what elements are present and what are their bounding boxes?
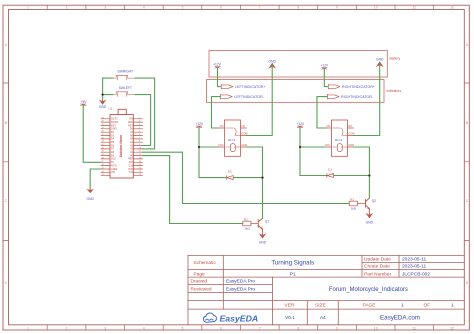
junction relay2 VCC: [299, 146, 301, 148]
svg-text:R2: R2: [244, 218, 248, 222]
svg-text:VCC: VCC: [218, 143, 224, 147]
svg-text:Part Number: Part Number: [364, 271, 392, 277]
svg-text:Q1: Q1: [265, 219, 269, 223]
svg-text:SWLEFT: SWLEFT: [119, 86, 132, 90]
resistor R1: [349, 201, 357, 206]
wire SWLEFT to arduino: [135, 95, 151, 146]
arduino pins right: [133, 119, 142, 176]
junction D1: [368, 174, 370, 176]
svg-text:3: 3: [104, 326, 106, 330]
svg-text:D2: D2: [228, 170, 232, 174]
svg-text:7: 7: [259, 6, 261, 10]
title block labels red: [191, 257, 431, 309]
svg-text:9: 9: [336, 326, 338, 330]
wire LEFTINDICATORR to relay1 NO: [212, 97, 221, 128]
diode D2: [227, 176, 234, 180]
svg-text:15: 15: [139, 164, 141, 166]
title block grid: [188, 256, 464, 325]
ground switches: [99, 100, 107, 110]
svg-text:11: 11: [139, 151, 141, 153]
svg-text:Page: Page: [194, 271, 206, 277]
wire +5V to arduino: [83, 106, 101, 163]
svg-text:11: 11: [413, 6, 417, 10]
svg-text:2: 2: [139, 121, 140, 123]
svg-text:SIZE: SIZE: [315, 302, 326, 308]
svg-text:RIGHTINDICATOR+: RIGHTINDICATOR+: [342, 85, 375, 89]
svg-text:SWRIGHT: SWRIGHT: [118, 70, 134, 74]
power +12V relay2: [296, 122, 305, 128]
wire +12V1 to P1: [218, 68, 221, 86]
svg-text:13: 13: [102, 174, 104, 176]
svg-text:EasyEDA Pro: EasyEDA Pro: [226, 286, 255, 292]
arduino pins left: [101, 119, 110, 176]
svg-text:28: 28: [102, 124, 104, 126]
svg-text:4: 4: [139, 127, 140, 129]
svg-text:GND: GND: [376, 58, 384, 62]
svg-text:LEFTINDICATOR+: LEFTINDICATOR+: [235, 85, 266, 89]
svg-text:C: C: [466, 199, 469, 203]
svg-text:U1: U1: [109, 106, 113, 110]
svg-text:1: 1: [27, 6, 29, 10]
frame zone ticks left right: [3, 83, 469, 241]
svg-text:2: 2: [66, 6, 68, 10]
relay RLY2: [325, 120, 353, 156]
svg-text:11: 11: [413, 326, 417, 330]
wire SWRIGHT to arduino: [135, 78, 155, 149]
ground Q1: [259, 233, 267, 245]
wire relay1 GND pin down: [247, 147, 263, 218]
svg-text:2023-05-11: 2023-05-11: [402, 264, 427, 270]
power +5V: [81, 100, 88, 106]
ground arduino: [86, 189, 94, 201]
ground Q2: [366, 213, 374, 224]
svg-text:D: D: [466, 281, 469, 285]
svg-text:6: 6: [220, 6, 222, 10]
svg-text:23: 23: [102, 141, 104, 143]
svg-text:Turning Signals: Turning Signals: [271, 260, 314, 267]
svg-text:Arduino Nano: Arduino Nano: [119, 135, 123, 157]
svg-text:16: 16: [102, 164, 104, 166]
svg-text:20: 20: [102, 151, 104, 153]
svg-text:NC: NC: [348, 124, 352, 128]
svg-text:1: 1: [451, 302, 454, 308]
svg-text:30: 30: [102, 117, 104, 119]
transistor Q2: [366, 198, 370, 216]
svg-text:EasyEDA: EasyEDA: [220, 313, 259, 323]
svg-text:V0.1: V0.1: [285, 315, 295, 321]
switch SWRIGHT: [113, 75, 136, 80]
svg-text:JLCPCB-002: JLCPCB-002: [402, 271, 430, 277]
svg-text:NC: NC: [242, 124, 246, 128]
wire switches left to GND: [103, 78, 113, 102]
transistor Q1: [258, 218, 262, 236]
indicators box: [207, 80, 385, 103]
svg-text:8: 8: [298, 6, 300, 10]
svg-text:EasyEDA Pro: EasyEDA Pro: [226, 279, 255, 285]
wire GND2 to relay2 COM: [353, 63, 379, 136]
connector LEFTINDICATORF: [221, 84, 233, 89]
svg-text:9: 9: [139, 144, 140, 146]
wire relay2 GND pin down: [353, 147, 369, 198]
arduino pin labels right: [128, 118, 134, 175]
svg-text:26: 26: [102, 131, 104, 133]
frame zone ticks bottom: [47, 325, 433, 330]
arduino pin labels left: [111, 118, 118, 175]
svg-text:RIGHTINDICATOR-: RIGHTINDICATOR-: [341, 95, 374, 99]
svg-text:GND: GND: [259, 241, 267, 245]
wire GND1 to relay1 COM: [247, 65, 273, 136]
svg-text:B: B: [5, 121, 7, 125]
svg-text:3: 3: [104, 6, 106, 10]
svg-text:10: 10: [139, 147, 141, 149]
svg-text:1: 1: [139, 117, 140, 119]
svg-text:4: 4: [143, 6, 145, 10]
svg-text:A4: A4: [320, 315, 326, 321]
svg-text:10: 10: [374, 326, 378, 330]
svg-text:Battery: Battery: [390, 57, 401, 61]
wire arduino GND1: [90, 169, 101, 191]
svg-text:16: 16: [139, 168, 141, 170]
power +12V battery2: [320, 64, 329, 70]
wire +12V relay1 VCC: [199, 128, 226, 178]
ground GND battery1: [268, 59, 276, 68]
svg-text:D: D: [5, 281, 8, 285]
power +12V relay1: [195, 122, 204, 128]
svg-text:2: 2: [66, 326, 68, 330]
svg-text:1: 1: [27, 326, 29, 330]
wire RIGHTINDICATORR to relay2 NO: [317, 97, 327, 128]
wire arduino D11 to R1: [143, 152, 350, 203]
svg-text:VCC: VCC: [325, 143, 331, 147]
svg-text:6: 6: [220, 326, 222, 330]
svg-text:5: 5: [182, 326, 184, 330]
svg-text:GND: GND: [269, 59, 277, 63]
svg-text:7: 7: [139, 137, 140, 139]
svg-text:R1: R1: [350, 198, 354, 202]
svg-text:Indicators: Indicators: [387, 89, 402, 93]
svg-text:COM: COM: [242, 132, 248, 136]
svg-text:17: 17: [139, 171, 141, 173]
svg-text:VIN: VIN: [111, 171, 115, 174]
resistor R2: [243, 221, 251, 226]
relay RLY1: [218, 120, 247, 156]
svg-text:18: 18: [139, 174, 141, 176]
junction relay1 VCC: [198, 146, 200, 148]
wire +12V2 to P3: [324, 69, 328, 86]
svg-text:10: 10: [374, 6, 378, 10]
svg-text:Reviewed: Reviewed: [191, 286, 212, 292]
svg-text:4: 4: [143, 326, 145, 330]
connector RIGHTINDICATORR: [327, 94, 339, 99]
svg-text:RLY2: RLY2: [335, 138, 343, 142]
svg-text:8: 8: [139, 141, 140, 143]
svg-text:+12V: +12V: [320, 64, 329, 68]
title block values blue: [226, 257, 454, 322]
svg-text:19: 19: [102, 154, 104, 156]
svg-text:Create Date: Create Date: [364, 264, 390, 270]
svg-text:5: 5: [182, 6, 184, 10]
svg-text:A: A: [5, 43, 8, 47]
svg-text:GND: GND: [366, 220, 374, 224]
svg-text:25: 25: [102, 134, 104, 136]
svg-text:18: 18: [102, 157, 104, 159]
svg-text:29: 29: [102, 121, 104, 123]
svg-text:EasyEDA.com: EasyEDA.com: [380, 315, 420, 322]
svg-text:14: 14: [139, 161, 141, 163]
ground GND battery2: [376, 58, 384, 67]
svg-text:NO: NO: [327, 124, 331, 128]
connector LEFTINDICATORR: [221, 94, 233, 99]
svg-text:P1: P1: [290, 271, 296, 277]
svg-text:+5V: +5V: [81, 100, 88, 104]
svg-text:5: 5: [139, 131, 140, 133]
diode D1: [327, 174, 334, 178]
svg-text:14: 14: [102, 171, 104, 173]
svg-text:2023-05-11: 2023-05-11: [402, 257, 427, 263]
svg-text:LEFTINDICATOR-: LEFTINDICATOR-: [234, 95, 265, 99]
svg-text:3: 3: [139, 124, 140, 126]
svg-text:1kΩ: 1kΩ: [351, 206, 357, 210]
svg-text:OF: OF: [424, 302, 431, 308]
frame zone ticks top: [47, 5, 433, 9]
svg-text:B: B: [466, 121, 468, 125]
svg-text:VER: VER: [285, 302, 295, 308]
arduino U1 body: [110, 109, 133, 178]
svg-text:1: 1: [401, 302, 404, 308]
switch SWLEFT: [113, 92, 136, 97]
svg-text:12: 12: [450, 326, 454, 330]
svg-text:+12V: +12V: [213, 63, 222, 67]
svg-text:PAGE: PAGE: [363, 302, 376, 308]
wire D1 to junction: [334, 175, 369, 177]
svg-text:Q2: Q2: [372, 199, 376, 203]
svg-text:15: 15: [102, 168, 104, 170]
svg-text:21: 21: [102, 147, 104, 149]
svg-text:22: 22: [102, 144, 104, 146]
svg-text:Drawed: Drawed: [191, 279, 208, 285]
svg-text:GND: GND: [87, 197, 95, 201]
svg-text:Update Date: Update Date: [364, 257, 391, 263]
svg-text:TX1: TX1: [129, 171, 134, 174]
power +12V battery1: [213, 63, 222, 69]
arduino pin numbers: [102, 117, 142, 176]
junction D2: [261, 177, 263, 179]
svg-text:1kΩ: 1kΩ: [244, 226, 250, 230]
svg-text:17: 17: [102, 161, 104, 163]
svg-text:+12V: +12V: [296, 122, 305, 126]
connector RIGHTINDICATORF: [328, 84, 340, 89]
junction switches: [102, 94, 104, 96]
wire D2 to junction: [234, 177, 263, 179]
svg-text:C: C: [5, 199, 8, 203]
svg-text:D1: D1: [328, 168, 332, 172]
svg-text:9: 9: [336, 6, 338, 10]
svg-text:6: 6: [139, 134, 140, 136]
svg-text:13: 13: [139, 157, 141, 159]
svg-text:Schematic: Schematic: [194, 260, 217, 266]
svg-text:COM: COM: [348, 132, 354, 136]
svg-text:7: 7: [259, 326, 261, 330]
svg-text:A: A: [466, 43, 469, 47]
svg-text:12: 12: [139, 154, 141, 156]
frame zone letters: [5, 43, 469, 285]
wire arduino D13 to R2: [143, 156, 243, 224]
svg-text:12: 12: [450, 6, 454, 10]
svg-text:NO: NO: [220, 124, 224, 128]
wire +12V relay2 VCC: [300, 128, 326, 176]
svg-text:+12V: +12V: [195, 122, 204, 126]
svg-text:27: 27: [102, 127, 104, 129]
svg-text:GND: GND: [99, 105, 107, 109]
battery box: [209, 51, 387, 78]
svg-text:24: 24: [102, 137, 104, 139]
svg-text:Forum_Motorcycle_Indicators: Forum_Motorcycle_Indicators: [329, 287, 408, 293]
EasyEDA logo: [203, 313, 258, 323]
svg-text:8: 8: [298, 326, 300, 330]
svg-text:RLY1: RLY1: [228, 138, 236, 142]
